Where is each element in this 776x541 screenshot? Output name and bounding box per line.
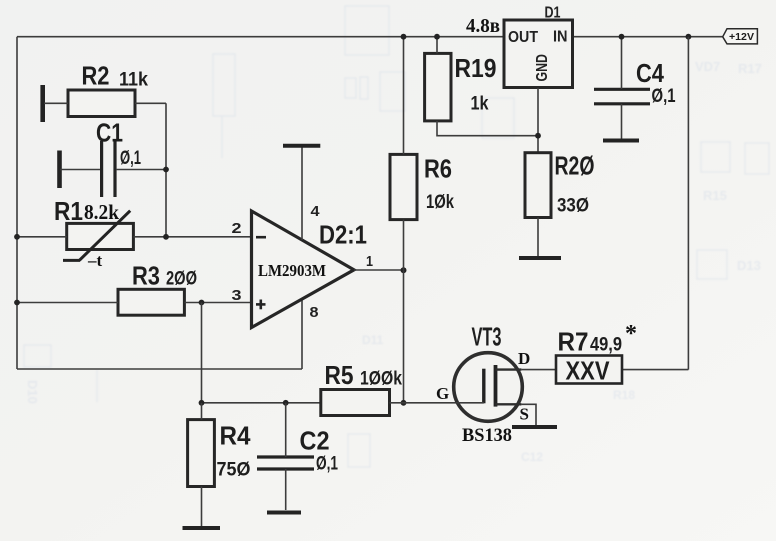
svg-text:2: 2 [232, 220, 242, 237]
wire R6 top lead [403, 37, 405, 155]
terminal +12V [723, 29, 758, 44]
node R1 right junction [163, 234, 169, 240]
value 8.2k [84, 200, 119, 224]
wire R5 right lead to gate [390, 402, 459, 404]
wire source lead [521, 404, 536, 425]
resistor R3 [118, 289, 184, 315]
svg-text:D1: D1 [545, 5, 561, 22]
svg-text:R7: R7 [558, 327, 589, 357]
svg-text:R18: R18 [613, 388, 635, 402]
pin number 4 [311, 203, 321, 220]
svg-text:*: * [625, 321, 637, 347]
wire bottom frame horizontal [17, 368, 302, 370]
svg-text:VD7: VD7 [695, 59, 720, 74]
svg-text:1k: 1k [471, 94, 489, 115]
svg-text:2ØØ: 2ØØ [166, 269, 197, 290]
wire output to gate row vertical [403, 270, 405, 403]
svg-text:+12V: +12V [729, 32, 754, 43]
wire top rail right segment [571, 36, 723, 38]
wire R4 top lead [201, 403, 203, 420]
ghost bleed-through box above R6 [380, 72, 405, 111]
svg-text:R15: R15 [703, 188, 727, 203]
svg-text:IN: IN [553, 29, 568, 46]
label C2 [300, 426, 330, 456]
ghost bleed-through lower-center marks [348, 333, 635, 467]
pin number 2 [232, 220, 242, 237]
contact bar C1 left [57, 151, 62, 189]
wire op-amp output [354, 269, 404, 271]
wire gate row [202, 402, 321, 404]
svg-text:Ø,1: Ø,1 [316, 454, 338, 475]
svg-text:D11: D11 [362, 333, 384, 347]
svg-text:D: D [518, 349, 530, 368]
svg-text:33Ø: 33Ø [557, 195, 589, 216]
pin label IN [553, 29, 568, 46]
node R19 on rail [434, 34, 440, 40]
svg-text:GND: GND [534, 54, 551, 82]
wire right loop horizontal to R7 [621, 369, 688, 371]
wire R3 right lead to op-amp pin 3 [184, 302, 252, 304]
resistor R5 [321, 390, 390, 416]
wire C4 top lead [621, 37, 623, 89]
wire C2 top lead [285, 403, 287, 457]
label R19 [455, 53, 497, 83]
ghost bleed-through lower-left column [24, 345, 97, 404]
svg-text:49,9: 49,9 [590, 334, 622, 355]
svg-text:VT3: VT3 [472, 322, 502, 352]
ghost bleed-through box center [482, 98, 514, 138]
pin number 8 [310, 304, 319, 321]
svg-text:R3: R3 [132, 260, 160, 290]
label D2:1 [319, 220, 367, 250]
label C4 [636, 58, 664, 88]
wire right loop vertical [687, 37, 689, 370]
value 11k [119, 69, 148, 90]
wire drain lead to R7 [521, 369, 556, 371]
resistor R2 [68, 90, 135, 117]
resistor R4 [188, 420, 215, 487]
value 100k [360, 369, 402, 390]
svg-text:G: G [436, 384, 449, 403]
node gate row C2 junction [283, 400, 289, 406]
svg-text:XXV: XXV [566, 356, 611, 386]
label LM2903M [258, 261, 326, 280]
value C1 0,1 [120, 148, 141, 169]
pin label OUT [508, 29, 538, 46]
ground R4 [183, 526, 221, 530]
wire R2 left lead [44, 102, 68, 104]
svg-text:R6: R6 [424, 154, 452, 184]
label R4 [220, 421, 251, 451]
svg-text:R4: R4 [220, 421, 251, 451]
wire gate lead into VT3 [456, 402, 484, 404]
value 330 [557, 195, 589, 216]
value 750 [217, 460, 251, 481]
value C2 0,1 [316, 454, 338, 475]
wire R1 row left [17, 236, 67, 238]
svg-text:11k: 11k [119, 69, 148, 90]
svg-text:OUT: OUT [508, 29, 538, 46]
svg-text:C12: C12 [521, 450, 543, 464]
label R3 [132, 260, 160, 290]
svg-text:75Ø: 75Ø [217, 460, 251, 481]
capacitor C4 [594, 89, 650, 104]
svg-text:R1: R1 [54, 196, 83, 226]
svg-text:3: 3 [232, 287, 242, 304]
node gate row output junction [401, 400, 407, 406]
resistor R20 [525, 153, 551, 218]
pin label S [520, 405, 529, 424]
svg-text:R2Ø: R2Ø [555, 151, 595, 181]
svg-text:R17: R17 [738, 61, 762, 76]
wire R19 bottom lead [437, 121, 538, 136]
node output junction [401, 267, 407, 273]
svg-text:–t: –t [87, 251, 103, 270]
supply bar pin 4 [283, 144, 320, 148]
ground R20 [519, 256, 561, 260]
transistor VT3 MOSFET [454, 353, 523, 422]
node right rail junction [686, 34, 692, 40]
wire op-amp pin 4 stub [301, 146, 303, 240]
wire left frame vertical [16, 37, 18, 369]
wire top rail left segment [17, 36, 505, 38]
label -t [87, 251, 103, 270]
node R6 on rail [401, 34, 407, 40]
svg-text:C1: C1 [96, 118, 123, 148]
resistor R6 [390, 154, 417, 219]
wire vertical R3 junction to gate row [201, 303, 203, 403]
ground C4 [603, 139, 639, 143]
thermistor R1 [63, 211, 133, 261]
label R6 [424, 154, 452, 184]
wire D1 GND stub [537, 88, 539, 153]
svg-text:R2: R2 [82, 60, 110, 90]
svg-text:D10: D10 [25, 380, 40, 404]
svg-text:8.2k: 8.2k [84, 200, 119, 224]
pin label D [518, 349, 530, 368]
svg-text:Ø,1: Ø,1 [652, 86, 676, 107]
capacitor C1 [102, 141, 115, 197]
node gate row R4 junction [199, 400, 205, 406]
label C1 [96, 118, 123, 148]
resistor R19 [425, 53, 451, 121]
voltage regulator D1 [504, 20, 573, 88]
label VT3 [472, 322, 502, 352]
svg-text:R5: R5 [325, 360, 354, 390]
pin label GND [534, 54, 551, 82]
svg-text:C2: C2 [300, 426, 330, 456]
svg-text:4: 4 [311, 203, 321, 220]
wire C1 right lead [117, 169, 166, 171]
label BS138 [462, 426, 512, 446]
svg-text:1ØØk: 1ØØk [360, 369, 402, 390]
wire C4 bottom lead [621, 104, 623, 139]
node R3 left on frame [14, 300, 20, 306]
wire vertical R2 to R1 row [165, 103, 167, 237]
label R20 [555, 151, 595, 181]
svg-text:1Øk: 1Øk [426, 192, 454, 213]
wire R1 row right to op-amp pin 2 [133, 236, 252, 238]
svg-text:D13: D13 [737, 258, 761, 273]
wire op-amp pin 8 stub [301, 299, 303, 369]
svg-text:Ø,1: Ø,1 [120, 148, 141, 169]
node R3 right junction [199, 300, 205, 306]
svg-text:C4: C4 [636, 58, 664, 88]
pin number 1 [366, 253, 373, 270]
label R5 [325, 360, 354, 390]
label R2 [82, 60, 110, 90]
resistor R7 box XXV [556, 356, 622, 386]
wire R20 bottom lead [537, 218, 539, 257]
ground source [512, 425, 557, 429]
pin label G [436, 384, 449, 403]
value 4.8v [466, 15, 500, 37]
svg-text:LM2903M: LM2903M [258, 261, 326, 280]
asterisk [625, 321, 637, 347]
wire C1 left lead [60, 169, 100, 171]
svg-text:8: 8 [310, 304, 319, 321]
contact bar R2 left [40, 85, 45, 122]
svg-text:BS138: BS138 [462, 426, 512, 446]
wire R2 right lead [135, 102, 166, 104]
ground C2 [267, 511, 301, 515]
ghost bleed-through marks left-center [345, 77, 368, 99]
ghost bleed-through resistor column upper-left [213, 54, 235, 158]
ghost bleed-through right column [695, 59, 769, 279]
node C4 on rail [619, 34, 625, 40]
svg-text:1: 1 [366, 253, 373, 270]
wire R3 left lead [17, 302, 118, 304]
label D1 [545, 5, 561, 22]
op-amp D2:1 [252, 211, 355, 328]
wire R19 top lead [436, 37, 438, 54]
wire C2 bottom lead [285, 469, 287, 510]
value 1k [471, 94, 489, 115]
pin number 3 [232, 287, 242, 304]
svg-text:D2:1: D2:1 [319, 220, 367, 250]
label R7 [558, 327, 589, 357]
node R1 left on frame [14, 234, 20, 240]
node C1 junction [163, 167, 169, 173]
capacitor C2 [257, 457, 314, 469]
svg-text:R19: R19 [455, 53, 497, 83]
wire R6 bottom lead [403, 220, 405, 270]
value C4 0,1 [652, 86, 676, 107]
node GND junction [535, 133, 541, 139]
wire R4 bottom lead [201, 487, 203, 527]
svg-text:S: S [520, 405, 529, 424]
svg-text:4.8в: 4.8в [466, 15, 500, 37]
label R1 [54, 196, 83, 226]
value 10k [426, 192, 454, 213]
ghost bleed-through box top-center [345, 6, 389, 55]
value 200 [166, 269, 197, 290]
value 49,9 [590, 334, 622, 355]
